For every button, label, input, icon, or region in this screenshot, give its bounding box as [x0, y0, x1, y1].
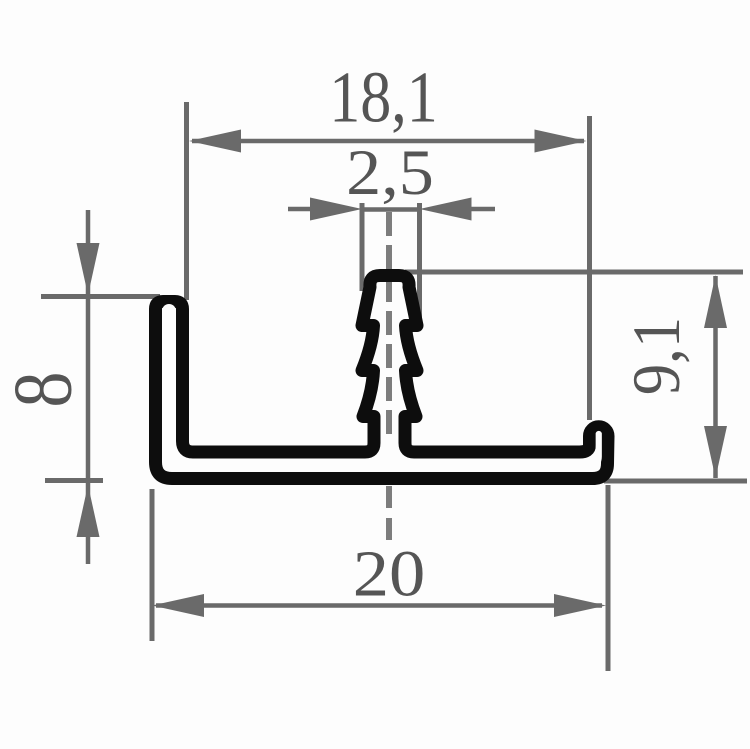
- arrow 20 right (points right): [554, 594, 606, 617]
- dim 20 dimension line: [156, 603, 602, 608]
- dim 2,5 left tail line: [288, 207, 318, 212]
- svg-text:18,1: 18,1: [329, 57, 438, 138]
- arrow 9,1 top (points up): [704, 275, 727, 328]
- dim 18,1 right extension line: [587, 116, 592, 420]
- dim 2,5 right tail line: [466, 207, 495, 212]
- dim 9,1 dimension line: [713, 276, 718, 478]
- profile outline (U-channel with fir-tree spline and J-hook): [156, 276, 609, 479]
- profile fill (metal cross-section, white): [156, 276, 609, 479]
- arrow 8 top (points down): [77, 243, 100, 295]
- arrow 2,5 right (points left): [420, 198, 472, 221]
- svg-text:20: 20: [353, 537, 426, 610]
- arrow 2,5 left (points right): [310, 198, 362, 221]
- left wall white core rounded top: [162, 311, 176, 335]
- centerline (over profile, inside spline area): [386, 212, 392, 443]
- arrow 9,1 bottom (points down): [704, 426, 727, 478]
- svg-text:2,5: 2,5: [346, 136, 434, 208]
- dim 8 dimension line: [86, 210, 91, 564]
- svg-text:9,1: 9,1: [620, 317, 695, 395]
- dim 2,5 middle segment: [362, 207, 420, 212]
- dim 8 bottom extension line: [45, 478, 103, 483]
- dim 18,1 dimension line: [192, 139, 584, 144]
- hook white core connector: [583, 434, 599, 466]
- dim 2,5 right extension line: [417, 203, 422, 320]
- centerline (below profile): [386, 486, 392, 545]
- dim 9,1 bottom extension line: [604, 479, 747, 484]
- dim 18,1 left extension line: [184, 102, 189, 300]
- dim 20 left extension line: [150, 489, 155, 641]
- dim 8 top extension line: [41, 294, 160, 299]
- arrow 20 left (points left): [152, 594, 204, 617]
- svg-text:8: 8: [0, 372, 89, 408]
- arrow 8 bottom (points up): [77, 485, 100, 537]
- dim 9,1 top extension line: [405, 270, 743, 275]
- arrow 18,1 right: [535, 130, 587, 153]
- dim 20 right extension line: [606, 485, 611, 671]
- arrow 18,1 left: [189, 130, 241, 153]
- centerline (under profile, above spline): [386, 212, 392, 280]
- dim 2,5 left extension line: [360, 203, 365, 291]
